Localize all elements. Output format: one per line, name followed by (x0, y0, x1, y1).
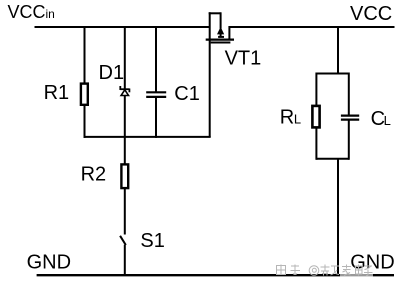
wire CL bottom (348, 120, 350, 160)
wire branch D1 top (124, 26, 126, 89)
capacitor CL (341, 116, 359, 120)
label R1 (44, 82, 70, 104)
svg-text:C1: C1 (174, 83, 200, 105)
svg-text:D1: D1 (99, 62, 125, 84)
wire parallel block bottom rail (84, 136, 211, 138)
resistor R2 (121, 164, 128, 188)
label GND right (350, 252, 394, 274)
wire RL bottom (315, 128, 317, 160)
label R2 (81, 163, 107, 185)
wire load block top rail (316, 73, 348, 75)
diode D1 (zener) (120, 86, 129, 96)
wire bottom GND rail (37, 274, 394, 276)
wire load block to GND (337, 159, 339, 276)
transistor VT1 (206, 12, 234, 137)
wire R1 bottom (84, 105, 86, 138)
wire load block bottom rail (316, 158, 348, 160)
net label VCCin (8, 2, 55, 22)
switch S1 blade (120, 236, 126, 245)
label VT1 (225, 48, 262, 70)
label CL (371, 108, 391, 130)
net label VCC (350, 3, 392, 25)
wire branch C1 top (155, 26, 157, 92)
svg-text:R: R (280, 107, 294, 129)
watermark zhihu (277, 265, 374, 278)
wire branch R1 top (84, 26, 86, 84)
capacitor C1 (146, 92, 166, 97)
resistor RL (312, 106, 319, 128)
label RL (280, 107, 301, 129)
label GND left (27, 252, 71, 274)
svg-text:R2: R2 (81, 163, 107, 185)
svg-text:L: L (294, 112, 301, 127)
label S1 (140, 230, 164, 252)
wire switch to ground (124, 245, 126, 276)
wire D1 to R2 (124, 96, 126, 164)
svg-text:R1: R1 (44, 82, 70, 104)
wire RL branch top (315, 73, 317, 106)
svg-text:L: L (384, 113, 391, 128)
wire top rail right (229, 26, 395, 28)
wire VCC branch right (337, 26, 339, 75)
wire C1 bottom (155, 97, 157, 138)
label D1 (99, 62, 125, 84)
wire R2 to switch (124, 189, 126, 235)
wire top rail left (35, 26, 210, 28)
svg-text:VCC: VCC (350, 3, 392, 25)
resistor R1 (81, 84, 88, 105)
svg-text:VT1: VT1 (225, 48, 262, 70)
label C1 (174, 83, 200, 105)
wire CL branch top (348, 73, 350, 116)
svg-text:GND: GND (27, 252, 71, 274)
svg-text:S1: S1 (140, 230, 164, 252)
svg-text:VCCin: VCCin (8, 2, 55, 22)
